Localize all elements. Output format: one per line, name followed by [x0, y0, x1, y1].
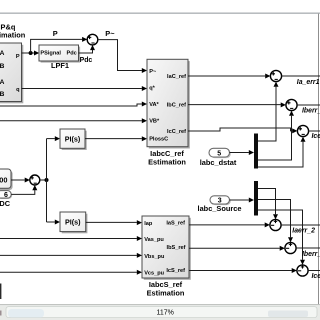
svg-text:Pdc: Pdc [67, 51, 77, 57]
wire IaC_ref to sum A [188, 74, 270, 79]
wire Vas_pu from left edge [0, 236, 142, 241]
svg-text:A: A [0, 50, 5, 57]
svg-text:labc_Source: labc_Source [198, 204, 242, 213]
wire 700 to Sum2 [11, 178, 30, 183]
svg-text:6: 6 [4, 192, 8, 199]
svg-text:q: q [16, 87, 20, 93]
svg-text:PI(s): PI(s) [65, 134, 81, 143]
svg-text:117%: 117% [157, 309, 174, 316]
subsystem IabcS_ref Estimation [142, 216, 191, 280]
status bar [0, 304, 320, 320]
sum F [297, 265, 308, 276]
svg-text:B: B [0, 91, 5, 98]
wire LPF1 output up to Sum1 [79, 45, 96, 53]
svg-text:P: P [16, 54, 20, 60]
wire IaS_ref to sum D [189, 222, 270, 227]
wire demux2 out2 down to sum E [258, 200, 293, 243]
svg-text:Icerr_2: Icerr_2 [312, 273, 320, 280]
svg-text:Vas_pu: Vas_pu [144, 237, 164, 243]
wire sum F output [308, 270, 320, 272]
wire Sum1 output to IabcC P~ input [98, 40, 147, 73]
block PI(s) 1 [60, 129, 87, 150]
subsystem IabcC_ref Estimation [147, 59, 190, 148]
sum Sum1 [87, 34, 98, 45]
wire stub into PI1 [47, 136, 61, 141]
block PI(s) 2 [60, 212, 87, 233]
wire PI1 output to PlossC [85, 136, 147, 141]
wire IbC_ref to sum B [188, 102, 286, 107]
svg-text:IaS_ref: IaS_ref [166, 220, 185, 226]
svg-text:700: 700 [0, 175, 7, 184]
svg-text:P~: P~ [149, 69, 157, 75]
svg-text:IaC_ref: IaC_ref [167, 74, 186, 80]
wire q to IabcC [22, 86, 148, 91]
wire sum E output [296, 247, 320, 249]
wire sum A output [282, 75, 320, 77]
wire P branch up to Sum1 [31, 37, 88, 53]
sum B [286, 99, 297, 110]
wire oval3 to demux2 [230, 198, 255, 203]
svg-text:IcC_ref: IcC_ref [167, 129, 186, 135]
wire vertical trunk to PI blocks [46, 139, 48, 222]
svg-text:Icerr_1: Icerr_1 [312, 133, 320, 140]
wire stub into PI2 [47, 220, 61, 225]
cut element at bottom left edge [0, 284, 1, 300]
svg-text:VA*: VA* [149, 102, 159, 108]
wire Vcs_pu from left edge [0, 270, 142, 275]
svg-text:VDC: VDC [0, 199, 11, 208]
wire oval6 to Sum2 bottom [11, 185, 37, 194]
canvas right border [318, 14, 319, 305]
svg-text:Iap: Iap [144, 221, 153, 227]
wire IbS_ref to sum E [189, 246, 285, 251]
wire oval5 to demux1 [230, 150, 255, 155]
port oval 5 [209, 148, 231, 158]
svg-text:Vcs_pu: Vcs_pu [144, 271, 164, 277]
svg-text:PSignal: PSignal [40, 51, 61, 57]
wire Vbs_pu from left edge [0, 253, 142, 258]
wire sum C output [309, 130, 320, 132]
svg-text:A: A [0, 79, 5, 86]
demux bar 1 (labc_dstat) [254, 134, 258, 169]
svg-text:IbS_ref: IbS_ref [167, 245, 186, 251]
svg-text:Estimation: Estimation [0, 31, 26, 40]
sum Sum2 [30, 175, 40, 185]
wire demux1 out2 up to sum B [258, 111, 294, 160]
wire IcS_ref to sum F [189, 268, 297, 273]
svg-text:VB*: VB* [149, 119, 160, 125]
svg-text:5: 5 [217, 151, 221, 158]
svg-text:IcS_ref: IcS_ref [166, 268, 185, 274]
svg-text:Pdc: Pdc [80, 57, 93, 64]
svg-text:Iberr_2: Iberr_2 [302, 107, 320, 114]
svg-text:q*: q* [149, 86, 155, 92]
wire VA* from left edge [0, 102, 147, 107]
junction on P wire [29, 51, 33, 55]
sum E [285, 242, 296, 253]
sum C [297, 125, 308, 136]
wire sum B output [297, 104, 320, 106]
demux bar 2 (labc_Source) [254, 181, 258, 216]
svg-text:Iberr_2: Iberr_2 [302, 251, 320, 258]
svg-text:LPF1: LPF1 [51, 61, 69, 70]
subsystem label P&q Estimation (cut at left) [0, 23, 26, 40]
wire VB* from left edge [0, 118, 147, 123]
sum D [270, 219, 281, 230]
port oval 3 [210, 196, 231, 205]
wire sum D output [281, 224, 320, 226]
svg-text:P~: P~ [105, 29, 115, 38]
wire IcC_ref to sum C [188, 128, 297, 133]
svg-text:PlossC: PlossC [149, 137, 168, 143]
wire demux1 out3 up to sum C [258, 137, 306, 167]
wire P output [22, 51, 40, 56]
wire demux2 out3 down to sum F [258, 210, 305, 265]
wire demux1 out1 up to sum A [258, 82, 279, 141]
subsystem P&q (cut at left edge) [0, 43, 23, 103]
svg-text:P: P [53, 29, 58, 38]
block constant 700 (cut at left) [0, 169, 13, 190]
port oval 6 (cut at left) [0, 191, 12, 200]
label IabcC_ref Estimation [148, 149, 186, 166]
toolbar bottom edge line [0, 13, 320, 14]
svg-text:Estimation: Estimation [147, 289, 185, 298]
svg-text:Ia_err1: Ia_err1 [297, 79, 320, 86]
sum A [270, 70, 281, 81]
svg-text:Iaerr_2: Iaerr_2 [292, 228, 315, 235]
svg-text:IbC_ref: IbC_ref [167, 102, 186, 108]
svg-text:B: B [0, 63, 5, 70]
svg-text:Vbs_pu: Vbs_pu [144, 254, 165, 260]
wire Sum2 output [40, 179, 47, 181]
svg-text:labc_dstat: labc_dstat [200, 158, 237, 167]
wire demux2 out1 down to sum D [258, 189, 278, 220]
label IabcS_ref Estimation [147, 280, 185, 298]
junction after Sum2 [45, 178, 49, 182]
svg-text:PI(s): PI(s) [65, 218, 81, 227]
svg-text:Estimation: Estimation [148, 158, 186, 167]
wire PI2 output to Iap [86, 220, 142, 225]
block LPF1 [39, 45, 80, 63]
